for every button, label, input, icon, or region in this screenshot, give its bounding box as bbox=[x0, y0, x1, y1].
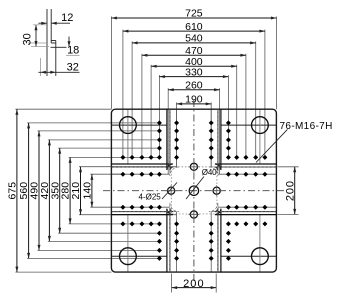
svg-text:330: 330 bbox=[185, 66, 203, 78]
svg-text:200: 200 bbox=[183, 278, 205, 290]
svg-text:675: 675 bbox=[7, 182, 19, 200]
svg-text:540: 540 bbox=[185, 33, 203, 45]
svg-text:Ø40: Ø40 bbox=[202, 168, 217, 177]
svg-text:610: 610 bbox=[185, 21, 203, 33]
svg-text:210: 210 bbox=[70, 182, 82, 200]
svg-text:76-M16-7H: 76-M16-7H bbox=[280, 121, 333, 132]
svg-text:140: 140 bbox=[82, 182, 94, 200]
svg-text:32: 32 bbox=[67, 61, 79, 73]
svg-text:725: 725 bbox=[185, 8, 203, 20]
svg-text:260: 260 bbox=[185, 79, 203, 91]
svg-text:200: 200 bbox=[285, 180, 297, 201]
svg-text:12: 12 bbox=[61, 12, 73, 24]
svg-text:4-Ø25: 4-Ø25 bbox=[139, 192, 162, 201]
svg-text:18: 18 bbox=[67, 45, 79, 57]
svg-text:30: 30 bbox=[22, 33, 34, 45]
svg-text:190: 190 bbox=[185, 94, 203, 106]
